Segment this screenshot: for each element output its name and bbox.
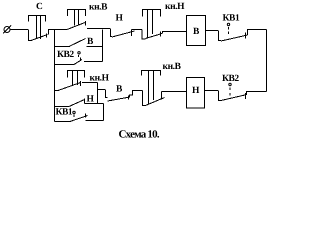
svg-text:Н: Н: [86, 94, 94, 104]
svg-text:Н: Н: [192, 86, 200, 96]
svg-text:КВ2: КВ2: [57, 50, 74, 60]
svg-text:кн.Н: кн.Н: [165, 2, 185, 12]
svg-text:КВ2: КВ2: [222, 74, 239, 84]
svg-text:В: В: [193, 27, 200, 37]
svg-text:Н: Н: [116, 13, 124, 23]
svg-text:С: С: [36, 2, 43, 12]
svg-text:КВ1: КВ1: [55, 107, 72, 117]
svg-text:кн.Н: кн.Н: [89, 73, 109, 83]
svg-text:Схема 10.: Схема 10.: [118, 128, 159, 140]
svg-text:КВ1: КВ1: [223, 14, 240, 24]
svg-text:В: В: [116, 84, 123, 94]
svg-text:В: В: [87, 37, 94, 47]
svg-text:кн.В: кн.В: [89, 2, 108, 12]
svg-text:кн.В: кн.В: [163, 62, 182, 72]
